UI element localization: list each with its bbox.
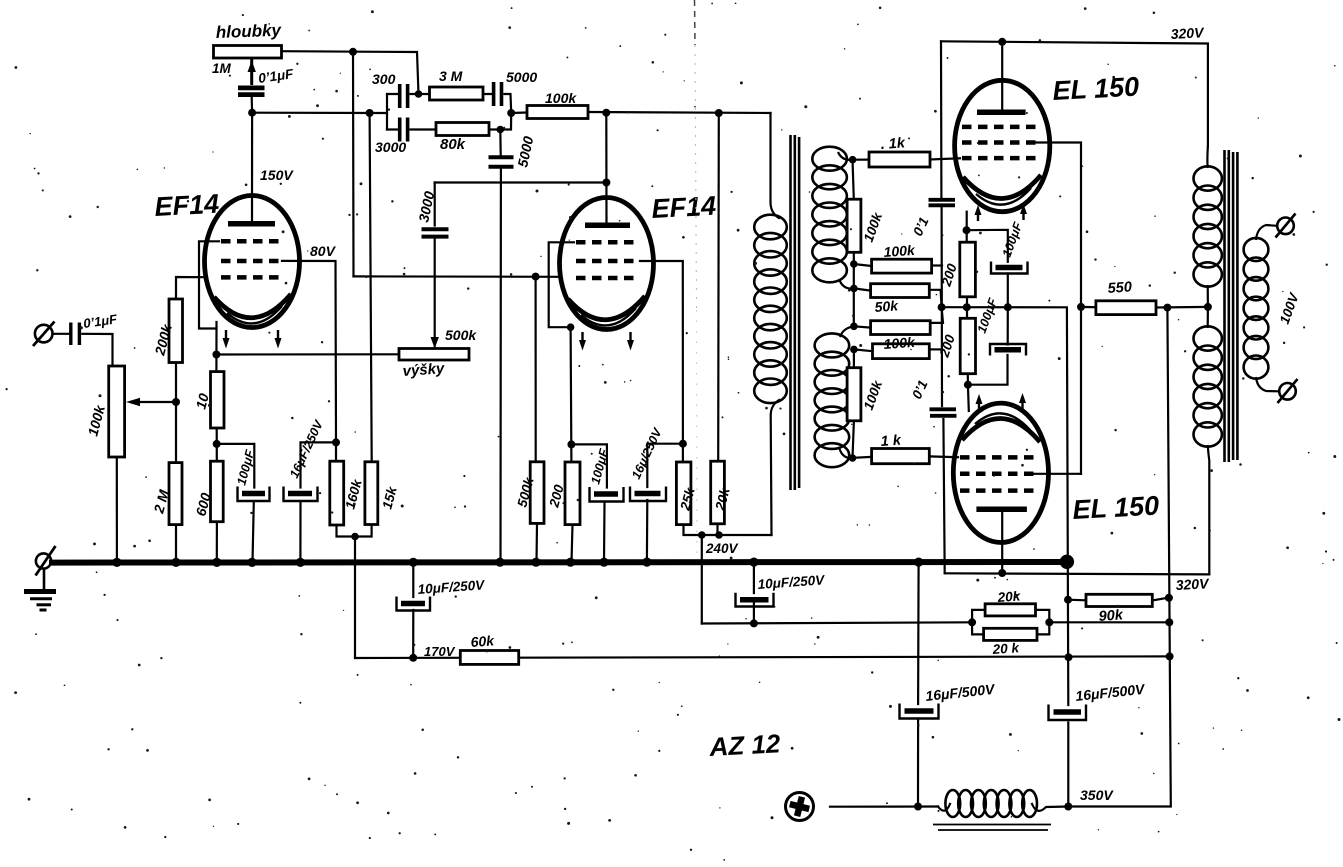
wire 20k-pair left bracket bbox=[972, 610, 985, 635]
svg-text:550: 550 bbox=[1107, 279, 1132, 297]
node bus dot 500k bbox=[531, 558, 540, 567]
node 25k/20k bottom junction dot bbox=[698, 531, 706, 539]
EF14-1 grid rows bbox=[221, 239, 283, 244]
wire grid1 EF14-1 to 200k bbox=[176, 277, 206, 299]
wire choke exit bbox=[1032, 804, 1068, 811]
EF14-2 heater pins bbox=[583, 332, 631, 345]
node T1 tap A1 dot bbox=[849, 156, 857, 164]
wire y=657 60k feed line bbox=[355, 656, 1171, 658]
svg-text:300: 300 bbox=[372, 71, 396, 87]
wire 100uF EF14-2 bottom to bus bbox=[603, 503, 606, 563]
wire heater supply to choke bbox=[830, 805, 938, 807]
node 10R/600R junction dot bbox=[213, 440, 221, 448]
node 10uF250-2 bottom junction dot bbox=[750, 619, 758, 627]
wire 100k-2 right lead to feedback line bbox=[932, 264, 942, 266]
svg-text:80k: 80k bbox=[440, 136, 466, 153]
node 10uF250-1 bottom junction dot bbox=[409, 654, 417, 662]
EF14-1 heater pins bbox=[226, 330, 278, 343]
wire 3000 cap vertical to treble pot wiper bbox=[434, 183, 436, 341]
svg-text:výšky: výšky bbox=[402, 360, 445, 380]
resistor 200k bbox=[169, 299, 183, 363]
capacitor 100uF EL150 upper bbox=[991, 262, 1028, 274]
wire grid feed y=276 to EF14-2 bbox=[354, 275, 559, 278]
wire 160k/15k bottoms joined bbox=[337, 525, 372, 537]
resistor 10 bbox=[211, 372, 225, 428]
wire 2M bottom to bus bbox=[175, 525, 177, 562]
svg-text:320V: 320V bbox=[1175, 575, 1210, 593]
svg-text:3 M: 3 M bbox=[439, 68, 463, 84]
capacitor 16u/250V EF14-2 bbox=[630, 487, 666, 502]
wire 10R bottom to 600R top bbox=[216, 428, 218, 461]
node coupling junction dot bbox=[248, 109, 256, 117]
capacitor 100uF EF14-1 bbox=[238, 487, 270, 502]
capacitor 5000 tone top bbox=[494, 82, 502, 106]
wire 20k long vertical from y113 bbox=[717, 113, 720, 461]
node choke/16uF500-2 junction dot bbox=[1064, 803, 1072, 811]
wire 50k right lead bracket bbox=[929, 290, 941, 307]
resistor 20k bbox=[711, 461, 725, 524]
resistor 100k coupling bbox=[527, 106, 588, 119]
node screen/16u junction dot bbox=[679, 440, 687, 448]
capacitor 3000 tone bbox=[400, 118, 408, 142]
wire 200up bottom to node bbox=[966, 297, 968, 319]
EL150-2 cathode arcs (top, flipped) bbox=[962, 418, 1040, 442]
node cathode/treble junction dot bbox=[212, 351, 220, 359]
wire EF14-1 g3 bracket and cathode node bbox=[199, 241, 219, 371]
wire down through bus to 60k feed line bbox=[354, 537, 356, 659]
node bus dot 16uF250-1 bbox=[296, 558, 305, 567]
tube EL150 lower (flipped) bbox=[953, 393, 1048, 543]
node T1 tap A6 dot bbox=[849, 454, 857, 462]
wire 1k lower to grid bbox=[853, 456, 959, 457]
wire T1 50k left lead bbox=[854, 288, 871, 290]
T2 secondary coil bbox=[1244, 238, 1269, 379]
ground bus bbox=[49, 555, 1074, 569]
wire interstage primary top lead bbox=[771, 113, 780, 218]
node bus dot 10uF250-1 bbox=[409, 558, 418, 567]
wire input jack to cap bbox=[53, 333, 69, 335]
EL150-1 heater pins bbox=[978, 209, 1024, 221]
node tone stack left junction dot bbox=[366, 109, 374, 117]
capacitors plate style bbox=[71, 59, 957, 416]
wire down from 25k/20k node through bus to 623 line bbox=[701, 535, 703, 624]
wire top from hloubky pot to tone stack corner bbox=[281, 51, 419, 94]
node 550/90k vertical junction dot bbox=[1163, 304, 1171, 312]
input jack bbox=[33, 322, 55, 347]
node 300/3M junction dot bbox=[415, 90, 423, 98]
wire 550 left lead bbox=[1081, 306, 1096, 309]
T1 secondary lower winding coil bbox=[815, 333, 850, 467]
wire y=573 lower EL150 anode line bbox=[945, 573, 1210, 574]
node volume wiper junction dot bbox=[172, 398, 180, 406]
wire 550 right lead bbox=[1156, 306, 1208, 309]
svg-text:500k: 500k bbox=[445, 327, 477, 343]
wire to treble pot left end bbox=[216, 353, 399, 355]
svg-text:. 1k: . 1k bbox=[880, 135, 906, 153]
wire tone top branch leads bbox=[387, 94, 511, 113]
wire 160k top bbox=[335, 442, 337, 461]
T2 secondary leads to output jacks bbox=[1256, 225, 1279, 391]
node bus end big dot bbox=[1060, 555, 1074, 569]
resistor 100k-4 bbox=[873, 344, 930, 359]
tube EL150 upper bbox=[955, 80, 1050, 221]
wire 1k upper to grid bbox=[853, 158, 961, 159]
node bus dot 16uF500-1 bbox=[914, 558, 923, 567]
node upper cathode junction dot bbox=[963, 226, 971, 234]
node transformer centre tap dot bbox=[1204, 303, 1212, 311]
chassis ground symbol bbox=[24, 546, 56, 610]
T2 primary lower coil bbox=[1194, 326, 1222, 446]
capacitor 0.1uF hloubky (wiper arrow + plates) bbox=[250, 59, 253, 85]
wire 20k-pair right to HV vertical bbox=[1049, 621, 1169, 623]
svg-text:240V: 240V bbox=[705, 541, 739, 556]
wire 5000 cap drop to ground bus bbox=[499, 130, 502, 563]
node upper EL150 anode junction dot bbox=[998, 38, 1006, 46]
paper crease marks bbox=[695, 0, 698, 555]
wire T1 100k-2 left lead bbox=[854, 264, 872, 266]
svg-text:20k: 20k bbox=[996, 588, 1022, 605]
resistors vertical bbox=[109, 199, 976, 525]
T1 primary winding coil bbox=[754, 215, 787, 403]
wire 16u250-2 bottom to bus bbox=[646, 500, 649, 562]
electrolytic capacitors bracket style bbox=[238, 262, 1087, 721]
resistor 20k parallel upper bbox=[985, 604, 1035, 616]
wire 25k/20k bottoms bbox=[684, 524, 772, 535]
wire 100uF EL-low top lead bbox=[1007, 307, 1009, 344]
node bus dot 2M bbox=[171, 558, 180, 567]
node 90k right dot bbox=[1165, 594, 1173, 602]
T2 primary leads and centre tap bbox=[1207, 146, 1209, 574]
node grid EF14-2 junction dot bbox=[532, 273, 540, 281]
output jack bottom bbox=[1279, 383, 1296, 400]
wire T1 100k-4 left lead bbox=[854, 349, 873, 351]
svg-text:5000: 5000 bbox=[506, 69, 537, 85]
resistor 100k vertical lower T1 bbox=[847, 368, 861, 421]
node bus dot 100k-pot bbox=[112, 558, 121, 567]
node AZ12 cathode junction dot bbox=[914, 803, 922, 811]
resistor 500k grid leak bbox=[530, 462, 544, 524]
wire feedback below lower 0.1 cap down to anode line bbox=[943, 419, 944, 573]
potentiometer hloubky 1M bbox=[214, 46, 282, 59]
node bus dot 5000 bbox=[495, 558, 504, 567]
node bus dot 600R bbox=[212, 558, 221, 567]
wire to 100uF EF14-2 bbox=[571, 444, 607, 487]
wire 10uF250-2 top from bus bbox=[753, 562, 755, 623]
output transformer T2 bbox=[1194, 146, 1298, 574]
wire feedback vertical upper segment with 0.1 cap bbox=[941, 41, 942, 406]
svg-text:3000: 3000 bbox=[375, 139, 406, 155]
wire tone bottom branch leads bbox=[387, 113, 511, 130]
node 90k left junction dot bbox=[1064, 596, 1072, 604]
node 60k line right dot bbox=[1166, 652, 1174, 660]
node EF14-2 cathode bracket dot bbox=[567, 323, 575, 331]
resistor 80k bbox=[436, 123, 489, 136]
svg-text:100k: 100k bbox=[883, 242, 916, 260]
wire 10uF250-1 from bus bbox=[412, 562, 414, 658]
wire choke entry dip bbox=[938, 804, 950, 811]
resistor 25k bbox=[676, 462, 691, 525]
wire 200R EF14-2 bottom to bus bbox=[572, 525, 573, 562]
resistor 200 EF14-2 cathode bbox=[565, 462, 580, 525]
EL150-2 anode plate (bottom) bbox=[976, 507, 1027, 513]
wire 90k leads bbox=[1068, 598, 1167, 601]
wire 100k pot bottom to bus bbox=[116, 457, 118, 562]
svg-text:150V: 150V bbox=[260, 167, 294, 183]
capacitor 10uF/250V right bbox=[736, 593, 774, 607]
node T1 tap A5 dot bbox=[850, 346, 858, 354]
resistor 50k bbox=[871, 284, 930, 298]
EF14-1 cathode arcs bbox=[214, 294, 291, 318]
L1 core lines bbox=[933, 825, 1051, 831]
T1 core laminations bbox=[791, 135, 800, 490]
capacitor 16uF/500V left bbox=[900, 704, 939, 719]
wiper arrowhead into treble pot bbox=[434, 340, 436, 346]
resistor 20k parallel lower bbox=[984, 628, 1037, 640]
EF14-1 anode plate bbox=[228, 221, 275, 227]
wire 16uF250 bottom to bus bbox=[299, 502, 301, 563]
resistor 3M bbox=[430, 87, 484, 100]
node bus dot 100uF-2 bbox=[599, 558, 608, 567]
resistor 160k bbox=[330, 461, 344, 525]
svg-text:hloubky: hloubky bbox=[215, 21, 282, 42]
wire 16uF500-1 from bus down bbox=[917, 563, 920, 807]
node x=1068 60k-line junction dot bbox=[1065, 653, 1073, 661]
node T1 tap A4 dot bbox=[850, 323, 858, 331]
wire phase node to ground-bus-end vertical bbox=[942, 307, 1069, 705]
svg-text:100k: 100k bbox=[545, 90, 577, 106]
node bus dot 200R bbox=[566, 558, 575, 567]
node T1 tap A3 dot bbox=[850, 285, 858, 293]
T1 secondary upper winding coil bbox=[812, 147, 847, 283]
T2 core laminations bbox=[1225, 150, 1238, 462]
node 20k-pair left dot bbox=[968, 618, 976, 626]
node tone output junction dot bbox=[507, 109, 515, 117]
node 100uF junction dot bbox=[1004, 303, 1012, 311]
wire EF14-2 anode vertical bbox=[605, 113, 607, 223]
wire EF14-2 screen to 25k bbox=[640, 261, 683, 462]
wire lower screen to vertical bbox=[1031, 473, 1081, 475]
capacitor input 0.1uF bbox=[71, 323, 80, 346]
wire 16uF250 top lead bbox=[301, 442, 337, 487]
wire 600R bottom to bus bbox=[216, 522, 218, 562]
wire long vertical from tone input x=371 down to 15k bbox=[370, 113, 372, 462]
wire tone bracket left vertical bbox=[386, 94, 388, 130]
wire interstage primary bottom lead bbox=[771, 400, 779, 535]
tube EF14 no.2 bbox=[560, 198, 654, 351]
filter choke L1 bbox=[933, 790, 1051, 830]
svg-text:EF14: EF14 bbox=[651, 191, 717, 224]
resistor 100k-3 bbox=[871, 321, 931, 335]
wire top 320V line bbox=[941, 41, 1208, 146]
node A top-left junction dot bbox=[349, 48, 357, 56]
node junction dot x=606 bbox=[602, 109, 610, 117]
wire to 100uF cap EF14-1 bbox=[217, 444, 255, 488]
capacitor 10uF/250V left bbox=[397, 597, 431, 611]
svg-text:1M: 1M bbox=[212, 61, 232, 76]
svg-text:320V: 320V bbox=[1170, 24, 1205, 42]
svg-text:EL 150: EL 150 bbox=[1072, 491, 1160, 525]
wire 100uF EF14-1 bottom to bus bbox=[253, 502, 254, 563]
resistor 90k bbox=[1086, 594, 1152, 606]
wire 200k to wiper node to 2M bbox=[175, 363, 177, 463]
node bus dot 10uF250-2 bbox=[749, 558, 758, 567]
wire vertical from top wire down to EF14-2 grid row bbox=[352, 52, 355, 277]
resistor 1k upper bbox=[869, 152, 930, 167]
tube EF14 no.1 bbox=[205, 196, 300, 349]
resistor 100k-2 bbox=[872, 259, 932, 273]
svg-text:1 k: 1 k bbox=[880, 433, 902, 450]
resistor 200 EL150 upper cathode bbox=[960, 242, 976, 297]
wire T1 100k-3 left lead bbox=[854, 326, 871, 327]
wire upper EL150 cathode bbox=[966, 212, 968, 243]
capacitor 0.1 feedback upper bbox=[929, 200, 956, 206]
wire 20k-pair right bracket bbox=[1036, 610, 1050, 635]
node T1 tap A2 dot bbox=[850, 260, 858, 268]
node 160k/15k junction dot bbox=[351, 533, 359, 541]
svg-text:EF14: EF14 bbox=[154, 189, 220, 222]
resistor 200 EL150 lower cathode bbox=[960, 318, 975, 373]
svg-text:350V: 350V bbox=[1080, 787, 1114, 803]
node bus dot 16uF250-2 bbox=[642, 558, 651, 567]
EF14-2 anode plate bbox=[585, 223, 630, 229]
wire screen EF14-1 80V line bbox=[282, 261, 336, 443]
svg-text:170V: 170V bbox=[424, 644, 456, 659]
svg-text:EL 150: EL 150 bbox=[1052, 72, 1140, 106]
potentiometer vysky 500k bbox=[399, 349, 469, 361]
wire upper EL150 anode bbox=[1001, 42, 1003, 110]
node 20k bottom dot bbox=[715, 531, 723, 539]
wire input cap to 100k pot top bbox=[82, 334, 112, 366]
potentiometer 100k volume bbox=[109, 366, 125, 457]
EL150-1 anode plate bbox=[977, 109, 1026, 115]
EF14-2 grid rows bbox=[576, 240, 639, 245]
resistor 60k bbox=[460, 651, 518, 665]
resistor 550 bbox=[1096, 301, 1156, 315]
wire 100k-4 right lead to lower 0.1 cap bbox=[929, 348, 942, 350]
resistor 100k vertical upper T1 bbox=[847, 199, 861, 252]
wire grid leak 500k EF14-2 bbox=[536, 277, 537, 562]
node feedback/ground junction dot bbox=[938, 303, 946, 311]
wire 100k leads y=113 bbox=[511, 112, 770, 113]
wire EF14-2 g3 bracket to cathode node bbox=[549, 242, 574, 462]
wire 16uF500-2 bottom lead bbox=[1067, 723, 1069, 807]
capacitor 16uF/250V EF14-1 bbox=[284, 487, 318, 502]
T1 secondary series link and taps bbox=[838, 152, 854, 458]
output jack top bbox=[1277, 218, 1294, 235]
node 80k/5000 junction dot bbox=[497, 126, 505, 134]
svg-text:20 k: 20 k bbox=[991, 640, 1021, 657]
node EF14-2 anode junction dot bbox=[602, 179, 610, 187]
svg-text:AZ 12: AZ 12 bbox=[708, 728, 782, 762]
wire anode EF14-1 coupling line y=112.7 bbox=[252, 112, 387, 115]
resistor 15k bbox=[365, 462, 378, 525]
wire 100uF EL-up bottom lead bbox=[1007, 274, 1009, 308]
capacitor 3000 mid (horizontal plates) bbox=[422, 229, 449, 236]
node junction dot x=718 bbox=[715, 109, 723, 117]
wire y=623 run to 20k-pair left bracket bbox=[702, 622, 972, 623]
interstage transformer T1 bbox=[754, 135, 872, 490]
node 20k-pair right wire dot bbox=[1165, 618, 1173, 626]
resistor 1k lower bbox=[872, 449, 930, 464]
EL150-1 grid rows bbox=[962, 125, 1042, 130]
node 20k-pair right dot bbox=[1045, 618, 1053, 626]
svg-text:80V: 80V bbox=[310, 243, 337, 259]
EL150-2 grid rows bbox=[960, 455, 1040, 460]
svg-text:60k: 60k bbox=[470, 632, 496, 650]
capacitor 100uF EF14-2 bbox=[590, 487, 624, 502]
EL150-1 cathode arcs bbox=[963, 175, 1041, 199]
resistors horizontal bbox=[214, 46, 1157, 665]
capacitor 100uF EL150 lower (open bottom) bbox=[990, 344, 1026, 356]
wire upper screen to vertical bbox=[1034, 143, 1081, 474]
svg-text:90k: 90k bbox=[1098, 607, 1124, 625]
wire lower cathode node to 100uF EL-low bbox=[968, 355, 1008, 411]
node bus dot 100uF-1 bbox=[247, 558, 256, 567]
AZ12 plus terminal bbox=[786, 793, 814, 821]
node lower cathode junction dot bbox=[964, 381, 972, 389]
wire lower EL150 anode bbox=[1001, 512, 1003, 573]
T2 primary upper coil bbox=[1194, 166, 1222, 286]
wire 100k-3 right lead bracket bbox=[929, 307, 943, 323]
capacitor 5000 lower (horizontal plates) bbox=[489, 157, 514, 167]
node 550 left junction dot bbox=[1077, 303, 1085, 311]
wire 200low bottom to lower cathode node bbox=[967, 374, 969, 385]
wire y=182.5 from 3000 cap line to EF14-2 anode bbox=[435, 181, 607, 183]
resistor 600 bbox=[211, 461, 224, 522]
capacitor 0.1 feedback lower bbox=[930, 409, 957, 416]
svg-text:50k: 50k bbox=[874, 297, 900, 315]
EL150-2 heater pins bbox=[979, 398, 1023, 410]
capacitor 16uF/500V right bbox=[1049, 705, 1087, 721]
wire 16u250-2 top lead bbox=[647, 444, 683, 487]
wire wiper arrow to 100k pot bbox=[131, 401, 176, 403]
EF14-2 cathode arcs bbox=[568, 296, 645, 320]
wire cathode to 100uF EL-up bbox=[967, 230, 1008, 262]
wire right HV vertical x=1169 bbox=[1068, 308, 1171, 807]
node 160k/16uF junction dot bbox=[332, 438, 340, 446]
node EF14-2 cathode/bypass junction dot bbox=[567, 440, 575, 448]
node lower EL150 anode junction dot bbox=[998, 569, 1006, 577]
capacitor 300 bbox=[400, 84, 408, 108]
resistor 2M bbox=[169, 463, 182, 525]
node cathode-R junction upper dot bbox=[963, 303, 971, 311]
